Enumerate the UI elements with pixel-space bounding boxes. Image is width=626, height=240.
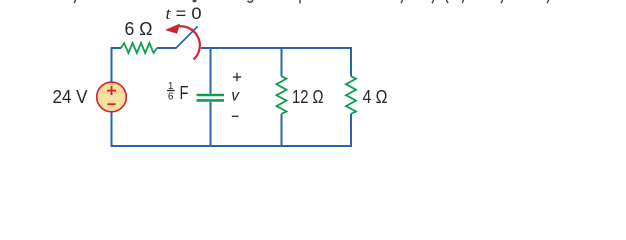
svg-text:12 Ω: 12 Ω [292, 87, 324, 107]
svg-text:t = 0: t = 0 [166, 4, 202, 23]
svg-text:F: F [180, 82, 189, 103]
svg-text:4 Ω: 4 Ω [363, 87, 388, 107]
svg-text:6 Ω: 6 Ω [125, 19, 153, 39]
svg-text:v: v [231, 88, 240, 105]
svg-text:6: 6 [168, 92, 174, 103]
svg-text:24 V: 24 V [53, 87, 88, 107]
